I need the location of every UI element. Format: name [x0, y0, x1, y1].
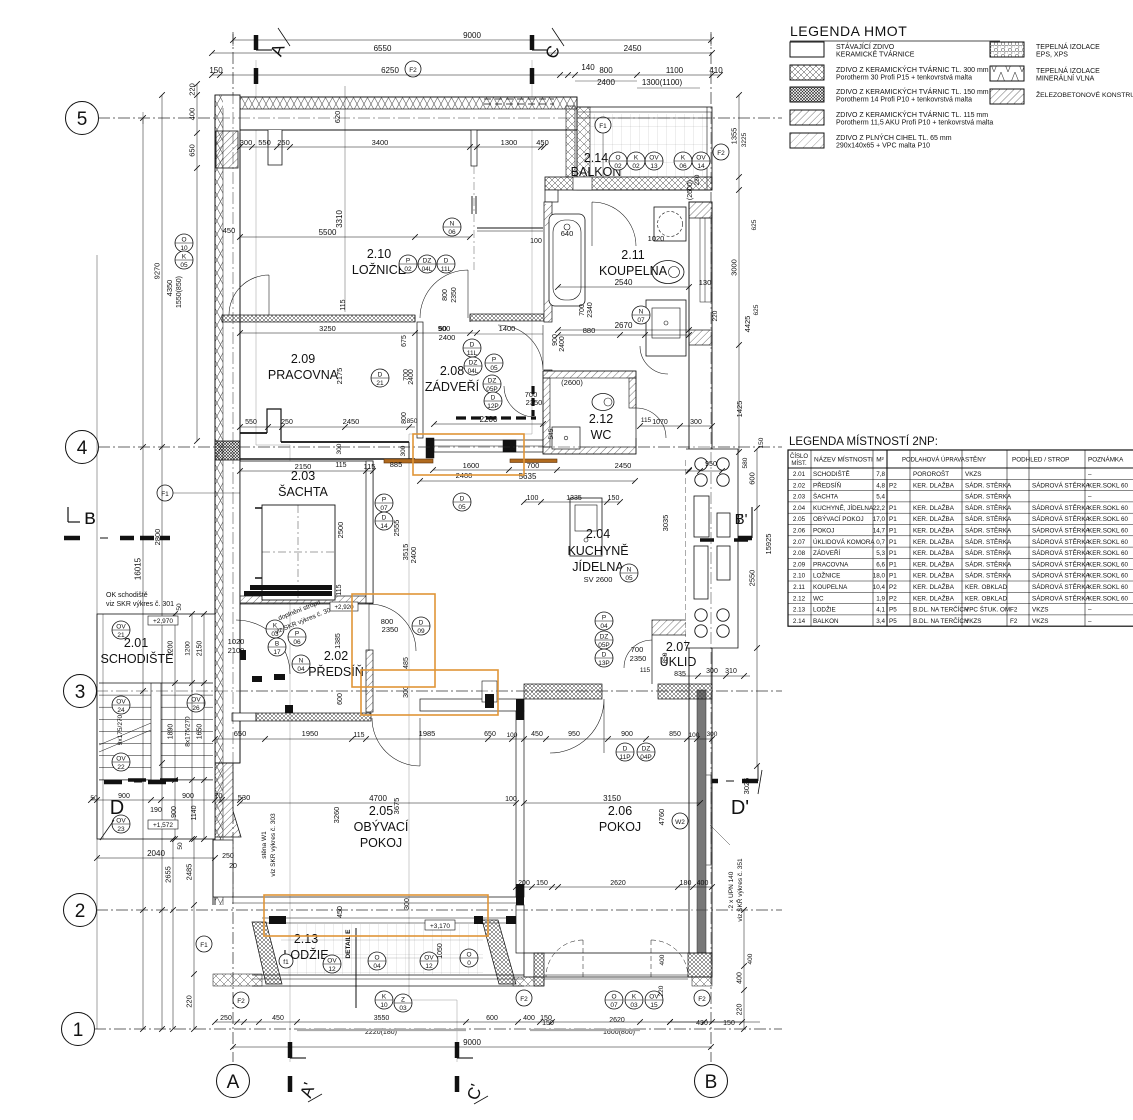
- svg-text:310: 310: [725, 668, 737, 675]
- svg-text:300: 300: [240, 138, 253, 147]
- svg-text:A: A: [227, 1072, 240, 1093]
- svg-text:2040: 2040: [147, 849, 165, 858]
- svg-text:O: O: [466, 952, 471, 959]
- symbol D/13P: [595, 649, 613, 667]
- svg-text:SÁDR. STĚRKA: SÁDR. STĚRKA: [965, 492, 1012, 501]
- gallery panel 1: [694, 496, 709, 537]
- svg-text:140: 140: [581, 63, 595, 72]
- section mark A top: [254, 35, 259, 50]
- svg-text:VKZS: VKZS: [1032, 618, 1048, 625]
- svg-text:600: 600: [486, 1015, 498, 1022]
- svg-text:P: P: [295, 631, 299, 638]
- wall zadveri white part: [434, 440, 543, 452]
- svg-text:D: D: [382, 515, 387, 522]
- svg-text:14: 14: [697, 163, 705, 170]
- svg-text:MÍST.: MÍST.: [791, 460, 807, 467]
- symbol OV/12: [323, 955, 341, 973]
- door arc corridor-koupelna: [498, 325, 543, 370]
- svg-text:450: 450: [272, 1015, 284, 1022]
- table row 2.08: [788, 557, 1133, 559]
- svg-text:900: 900: [552, 334, 559, 346]
- svg-text:430: 430: [696, 1020, 708, 1027]
- left stair dims: [174, 614, 176, 839]
- svg-text:W2: W2: [675, 819, 685, 826]
- svg-text:70: 70: [215, 793, 223, 800]
- svg-text:1425: 1425: [735, 401, 744, 418]
- right wall window pokoj W2: [700, 775, 711, 865]
- svg-text:115: 115: [364, 462, 376, 471]
- svg-text:2400: 2400: [409, 547, 418, 564]
- symbol N/06: [443, 218, 461, 236]
- svg-text:3035: 3035: [661, 515, 670, 532]
- svg-text:P: P: [406, 258, 410, 265]
- svg-text:300: 300: [690, 419, 702, 426]
- koupelna west wall lower: [544, 370, 552, 378]
- grid axis line B: [710, 32, 712, 1062]
- svg-text:250: 250: [277, 138, 290, 147]
- svg-text:850: 850: [407, 418, 418, 425]
- symbol D/11P: [616, 743, 634, 761]
- level mark +2.970: [148, 616, 178, 625]
- svg-text:900: 900: [171, 806, 178, 818]
- svg-text:DZ: DZ: [469, 360, 478, 367]
- svg-text:2.06: 2.06: [793, 528, 806, 535]
- symbol N/07: [632, 306, 650, 324]
- svg-text:02: 02: [404, 266, 412, 273]
- svg-text:11L: 11L: [441, 266, 452, 273]
- svg-text:2.05: 2.05: [369, 804, 393, 818]
- kitchen island sink: [570, 498, 602, 556]
- symbol D/14: [375, 512, 393, 530]
- svg-text:N: N: [450, 221, 455, 228]
- svg-text:05: 05: [458, 504, 466, 511]
- door arc loznice: [420, 270, 468, 318]
- svg-text:07: 07: [610, 1002, 618, 1009]
- gallery panel 2: [717, 513, 730, 537]
- svg-text:SÁDROVÁ STĚRKA: SÁDROVÁ STĚRKA: [1032, 571, 1091, 580]
- svg-text:2670: 2670: [615, 321, 633, 330]
- svg-text:ŠACHTA: ŠACHTA: [278, 484, 328, 499]
- svg-text:16015: 16015: [134, 557, 143, 580]
- svg-text:2.04: 2.04: [586, 527, 610, 541]
- symbol F2 top: [405, 61, 421, 77]
- lodzie floor: [281, 924, 483, 974]
- table row 2.02: [788, 490, 1133, 492]
- exterior gallery outline: [686, 449, 738, 648]
- svg-text:1020: 1020: [648, 234, 665, 243]
- svg-text:D: D: [110, 797, 124, 819]
- bottom wall pier right: [688, 953, 712, 977]
- svg-text:P1: P1: [889, 528, 897, 535]
- svg-text:220: 220: [712, 310, 719, 321]
- svg-text:220: 220: [188, 83, 197, 96]
- svg-text:950: 950: [705, 461, 717, 468]
- svg-text:2400: 2400: [439, 333, 456, 342]
- svg-text:2200: 2200: [480, 415, 498, 424]
- svg-text:2.14: 2.14: [584, 151, 608, 165]
- svg-text:21: 21: [117, 632, 125, 639]
- wc washbasin: [552, 427, 580, 449]
- gallery column: [717, 474, 729, 486]
- svg-text:600: 600: [748, 472, 757, 485]
- grid axis overlay lines: [98, 117, 782, 119]
- svg-text:P2: P2: [889, 584, 897, 591]
- svg-text:1020: 1020: [228, 637, 245, 646]
- svg-text:1385: 1385: [335, 633, 342, 649]
- staircase treads: [99, 682, 151, 684]
- staircase door dashes: [128, 778, 146, 782]
- svg-text:ZÁDVEŘÍ: ZÁDVEŘÍ: [425, 379, 480, 394]
- svg-text:2.09: 2.09: [291, 352, 315, 366]
- lodzie slanted parapet left: [252, 922, 282, 984]
- svg-text:EPS, XPS: EPS, XPS: [1036, 52, 1068, 59]
- svg-text:KER. DLAŽBA: KER. DLAŽBA: [913, 571, 955, 580]
- svg-text:P1: P1: [889, 573, 897, 580]
- sachta top face: [240, 458, 415, 460]
- svg-text:OK schodiště: OK schodiště: [106, 592, 148, 599]
- svg-text:M²: M²: [876, 457, 884, 464]
- svg-text:VKZS: VKZS: [1032, 607, 1048, 614]
- shower / counter koupelna: [646, 300, 686, 356]
- svg-text:SV 2600: SV 2600: [584, 575, 613, 584]
- svg-text:TEPELNÁ IZOLACE: TEPELNÁ IZOLACE: [1036, 66, 1100, 75]
- svg-text:ČÍSLO: ČÍSLO: [790, 453, 808, 460]
- svg-text:SÁDROVÁ STĚRKA: SÁDROVÁ STĚRKA: [1032, 559, 1091, 568]
- table row 2.06: [788, 535, 1133, 537]
- svg-text:viz SKR výkres č. 303: viz SKR výkres č. 303: [270, 813, 277, 877]
- grid bubble 2: [64, 894, 97, 927]
- door opening loznice south: [414, 315, 416, 322]
- table row 2.07: [788, 546, 1133, 548]
- svg-text:O: O: [181, 237, 186, 244]
- svg-text:2 x UPN 140: 2 x UPN 140: [728, 871, 735, 908]
- svg-text:2450: 2450: [615, 461, 632, 470]
- svg-text:05: 05: [180, 262, 188, 269]
- svg-text:10,4: 10,4: [873, 584, 886, 591]
- section mark A' bottom: [288, 1042, 293, 1058]
- svg-text:2: 2: [75, 901, 86, 922]
- svg-text:550: 550: [245, 419, 257, 426]
- svg-text:P: P: [492, 357, 496, 364]
- symbol K/03: [625, 991, 643, 1009]
- svg-text:2100: 2100: [228, 646, 245, 655]
- wall loznice/pracovna: [222, 315, 415, 322]
- svg-text:F2: F2: [1010, 618, 1018, 625]
- svg-text:400: 400: [737, 972, 744, 984]
- bottom dim 9000: [233, 1046, 711, 1048]
- svg-text:100: 100: [527, 495, 539, 502]
- stair bottom dims: [91, 799, 240, 801]
- legend swatch tepelna izolace EPS: [990, 42, 1024, 57]
- svg-text:KER. DLAŽBA: KER. DLAŽBA: [913, 582, 955, 591]
- grid axis line 2: [96, 909, 782, 911]
- svg-text:26: 26: [192, 705, 200, 712]
- bottom wall window lines: [544, 974, 688, 976]
- symbol D/21: [371, 369, 389, 387]
- obyvaci dims: [215, 738, 712, 740]
- svg-text:14: 14: [380, 523, 388, 530]
- kuchyne east wall dashed: [685, 460, 687, 648]
- svg-text:3000: 3000: [730, 259, 739, 276]
- svg-text:1985: 1985: [419, 729, 436, 738]
- svg-text:2.12: 2.12: [793, 595, 806, 602]
- svg-text:LODŽIE: LODŽIE: [813, 605, 836, 614]
- svg-text:K: K: [382, 994, 387, 1001]
- svg-text:DZ: DZ: [423, 258, 432, 265]
- symbol O/07: [605, 991, 623, 1009]
- symbol OV/12: [420, 952, 438, 970]
- svg-text:OV: OV: [649, 155, 659, 162]
- svg-text:KER. DLAŽBA: KER. DLAŽBA: [913, 526, 955, 535]
- grid bubble B: [695, 1065, 728, 1098]
- threshold sill left: [384, 459, 433, 463]
- koupelna west wall: [544, 202, 552, 322]
- svg-text:2.11: 2.11: [621, 248, 644, 262]
- left dim chain 2: [161, 95, 163, 1029]
- svg-text:DETAIL E: DETAIL E: [345, 929, 352, 959]
- svg-text:4760: 4760: [657, 809, 666, 826]
- svg-text:115: 115: [640, 667, 651, 674]
- svg-text:K: K: [634, 155, 639, 162]
- left wall hatch block at grid 4: [215, 441, 240, 460]
- left outer extension line: [96, 255, 98, 1029]
- svg-text:450: 450: [531, 731, 543, 738]
- sachta dims: [240, 470, 373, 472]
- svg-text:9x175/270: 9x175/270: [117, 714, 124, 745]
- svg-text:F2: F2: [520, 996, 528, 1003]
- wall kuchyne/pokoj: [524, 684, 602, 699]
- legend swatch STÁVAJÍCÍ ZDIVO: [790, 42, 824, 57]
- symbol F2 lodzie left: [233, 992, 249, 1008]
- svg-text:3: 3: [75, 682, 86, 703]
- svg-text:POKOJ: POKOJ: [599, 820, 641, 834]
- svg-text:1950: 1950: [302, 729, 319, 738]
- svg-text:P5: P5: [889, 607, 897, 614]
- svg-text:F2: F2: [717, 150, 725, 157]
- svg-text:+3,170: +3,170: [430, 923, 450, 930]
- right wall steel channel 2xUPN: [697, 690, 706, 966]
- svg-text:3310: 3310: [335, 210, 344, 228]
- svg-text:(2600): (2600): [561, 378, 583, 387]
- svg-text:100: 100: [689, 732, 700, 739]
- svg-text:04: 04: [297, 666, 305, 673]
- left wall corner hatch block: [216, 131, 238, 168]
- svg-text:P1: P1: [889, 539, 897, 546]
- svg-text:50: 50: [177, 842, 184, 850]
- svg-text:9000: 9000: [463, 31, 481, 40]
- grid axis line 3: [96, 690, 782, 692]
- svg-text:2450: 2450: [624, 44, 642, 53]
- svg-text:2.07: 2.07: [793, 539, 806, 546]
- symbol K/05: [175, 251, 193, 269]
- svg-text:+2,920: +2,920: [334, 604, 354, 611]
- svg-text:1650: 1650: [197, 724, 204, 740]
- svg-text:POKOJ: POKOJ: [813, 528, 834, 535]
- svg-text:550: 550: [258, 138, 271, 147]
- right wall window koupelna: [700, 218, 711, 302]
- svg-text:625: 625: [751, 219, 758, 230]
- svg-text:250: 250: [281, 419, 293, 426]
- svg-text:D: D: [602, 652, 607, 659]
- svg-text:SÁDR. STĚRKA: SÁDR. STĚRKA: [965, 526, 1012, 535]
- svg-text:300: 300: [706, 668, 718, 675]
- wall obyvaci/pokoj: [516, 711, 524, 897]
- svg-text:SÁDR. STĚRKA: SÁDR. STĚRKA: [965, 503, 1012, 512]
- dim line loznice 5500: [240, 236, 470, 238]
- svg-text:1200: 1200: [185, 641, 192, 656]
- svg-text:B.DL. NA TERČÍCH: B.DL. NA TERČÍCH: [913, 616, 969, 625]
- svg-text:850: 850: [662, 652, 669, 663]
- svg-text:3025: 3025: [742, 778, 751, 795]
- svg-text:DZ: DZ: [488, 378, 497, 385]
- svg-text:SÁDROVÁ STĚRKA: SÁDROVÁ STĚRKA: [1032, 548, 1091, 557]
- orange highlight lodzie: [264, 895, 488, 936]
- svg-text:KER. OBKLAD: KER. OBKLAD: [965, 584, 1007, 591]
- WC door arc: [636, 408, 666, 438]
- svg-text:11L: 11L: [467, 350, 478, 357]
- svg-text:600: 600: [337, 693, 344, 705]
- svg-text:PRACOVNA: PRACOVNA: [813, 561, 849, 568]
- svg-text:04: 04: [600, 623, 608, 630]
- svg-text:OV: OV: [116, 699, 126, 706]
- svg-text:05P: 05P: [598, 642, 610, 649]
- svg-text:0,7: 0,7: [876, 539, 885, 546]
- svg-text:8x175/270: 8x175/270: [185, 716, 192, 747]
- svg-text:2485: 2485: [185, 864, 194, 881]
- svg-text:WC: WC: [813, 595, 824, 602]
- svg-text:485: 485: [403, 657, 410, 669]
- svg-text:1300(1100): 1300(1100): [642, 78, 683, 87]
- svg-text:STĚNY: STĚNY: [965, 455, 987, 464]
- elevator car: [262, 505, 335, 600]
- pokoj south door arc dashed right: [651, 940, 688, 977]
- svg-text:4425: 4425: [743, 316, 752, 333]
- door arc loznice west: [229, 275, 269, 315]
- svg-text:1070: 1070: [652, 419, 668, 426]
- svg-text:2.07: 2.07: [666, 640, 690, 654]
- svg-text:9270: 9270: [153, 263, 162, 280]
- symbol Z/03: [394, 994, 412, 1012]
- svg-text:150: 150: [723, 1020, 735, 1027]
- top exterior wall: [215, 97, 577, 130]
- svg-text:20: 20: [229, 863, 237, 870]
- svg-text:400: 400: [747, 953, 754, 964]
- svg-text:O: O: [374, 955, 379, 962]
- svg-text:B: B: [705, 1072, 718, 1093]
- svg-text:D: D: [460, 496, 465, 503]
- svg-text:B: B: [84, 509, 95, 528]
- door arc predsin-obyvaci: [372, 718, 420, 766]
- svg-text:06: 06: [293, 639, 301, 646]
- svg-text:450: 450: [337, 906, 344, 918]
- svg-text:700: 700: [579, 304, 586, 316]
- svg-text:KER.SOKL 60: KER.SOKL 60: [1088, 516, 1129, 523]
- svg-text:2350: 2350: [451, 287, 458, 303]
- svg-text:4,8: 4,8: [876, 482, 885, 489]
- svg-text:1300: 1300: [501, 138, 518, 147]
- svg-text:3260: 3260: [332, 807, 341, 824]
- svg-text:SÁDROVÁ STĚRKA: SÁDROVÁ STĚRKA: [1032, 514, 1091, 523]
- table row 2.12: [788, 603, 1133, 605]
- svg-text:B': B': [735, 511, 748, 528]
- svg-text:LEGENDA MÍSTNOSTÍ 2NP:: LEGENDA MÍSTNOSTÍ 2NP:: [789, 435, 938, 448]
- svg-text:17,0: 17,0: [873, 516, 886, 523]
- lodzie zigzag left: [213, 974, 262, 986]
- svg-text:2.06: 2.06: [608, 804, 632, 818]
- svg-text:stěna W1: stěna W1: [261, 831, 268, 859]
- svg-text:4,1: 4,1: [876, 607, 885, 614]
- svg-text:OBÝVACÍ: OBÝVACÍ: [354, 819, 409, 834]
- svg-text:2.04: 2.04: [793, 505, 806, 512]
- symbol N/05: [620, 564, 638, 582]
- svg-text:15925: 15925: [764, 534, 773, 555]
- svg-text:KER.SOKL 60: KER.SOKL 60: [1088, 505, 1129, 512]
- svg-text:1050: 1050: [437, 943, 444, 959]
- svg-text:05: 05: [490, 365, 498, 372]
- svg-text:220: 220: [737, 1004, 744, 1016]
- svg-text:SÁDR. STĚRKA: SÁDR. STĚRKA: [965, 559, 1012, 568]
- svg-text:07: 07: [637, 317, 645, 324]
- svg-text:KERAMICKÉ TVÁRNICE: KERAMICKÉ TVÁRNICE: [836, 50, 915, 59]
- svg-text:3250: 3250: [319, 324, 336, 333]
- symbol F1 sachta: [157, 485, 173, 501]
- sachta bottom wall: [240, 596, 373, 604]
- svg-text:2.02: 2.02: [324, 649, 348, 663]
- symbol F1 balcony: [595, 117, 611, 133]
- svg-text:150: 150: [536, 880, 548, 887]
- svg-text:13: 13: [650, 163, 658, 170]
- svg-text:ZDIVO Z KERAMICKÝCH TVÁRNIC TL: ZDIVO Z KERAMICKÝCH TVÁRNIC TL. 300 mm: [836, 65, 989, 74]
- svg-text:DZ: DZ: [600, 634, 609, 641]
- svg-text:F2: F2: [698, 996, 706, 1003]
- svg-text:250: 250: [222, 853, 234, 860]
- svg-text:13P: 13P: [598, 660, 610, 667]
- svg-text:4: 4: [77, 438, 88, 459]
- svg-text:P1: P1: [889, 561, 897, 568]
- svg-text:VKZS: VKZS: [965, 618, 981, 625]
- svg-text:150: 150: [542, 1020, 554, 1027]
- svg-text:4350: 4350: [165, 280, 174, 297]
- table row 2.03: [788, 501, 1133, 503]
- legend swatch ZDIVO Z KERAMICKÝCH: [790, 65, 824, 80]
- svg-text:F2: F2: [237, 998, 245, 1005]
- svg-text:150: 150: [209, 66, 223, 75]
- svg-text:17: 17: [273, 649, 281, 656]
- svg-text:O: O: [611, 994, 616, 1001]
- section line C-C: [531, 60, 533, 434]
- left wall lower segment: [213, 840, 233, 897]
- svg-text:700: 700: [631, 645, 644, 654]
- svg-text:ŠACHTA: ŠACHTA: [813, 492, 839, 501]
- svg-text:22: 22: [117, 764, 125, 771]
- svg-text:1550(850): 1550(850): [176, 276, 183, 308]
- svg-text:KER.SOKL 60: KER.SOKL 60: [1088, 528, 1129, 535]
- svg-text:3675: 3675: [392, 798, 401, 815]
- right wall hatch top: [689, 202, 712, 218]
- gallery column: [717, 609, 729, 621]
- svg-text:SCHODIŠTĚ: SCHODIŠTĚ: [101, 651, 174, 666]
- svg-text:2.13: 2.13: [793, 607, 806, 614]
- svg-text:100: 100: [530, 238, 542, 245]
- svg-text:ZDIVO Z PLNÝCH CIHEL TL. 65 mm: ZDIVO Z PLNÝCH CIHEL TL. 65 mm: [836, 133, 952, 142]
- symbol OV/23: [112, 815, 130, 833]
- svg-text:115: 115: [335, 462, 346, 469]
- svg-text:21: 21: [376, 380, 384, 387]
- symbol OV/22: [112, 753, 130, 771]
- svg-text:–: –: [1088, 471, 1092, 478]
- sliding door dashes zadveri: [456, 416, 536, 419]
- svg-text:DZ: DZ: [642, 746, 651, 753]
